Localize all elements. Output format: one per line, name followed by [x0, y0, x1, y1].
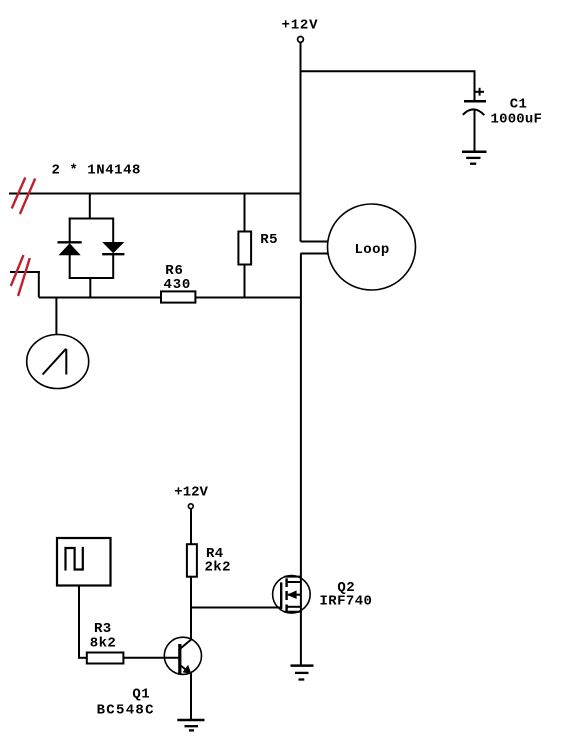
Q2 body arrow	[288, 594, 301, 596]
svg-text:BC548C: BC548C	[97, 702, 155, 718]
diode box bottom	[69, 277, 113, 279]
wire: lower-left input stub	[10, 271, 40, 273]
wire: junction to Q2 gate	[191, 607, 282, 609]
svg-text:+12V: +12V	[282, 17, 319, 33]
wire: R5 top lead	[244, 193, 246, 232]
input break marks (bottom, red)	[11, 255, 24, 286]
diode D-left leads	[69, 218, 71, 243]
wire: lower rail left of R6	[39, 297, 161, 299]
wire: horizontal branch to C1	[300, 70, 475, 72]
resistor R5	[238, 232, 251, 265]
square wave glyph	[66, 547, 83, 571]
resistor R6	[161, 291, 195, 302]
svg-text:8k2: 8k2	[90, 635, 116, 651]
wire: stub corner down	[38, 271, 40, 298]
svg-text:1000uF: 1000uF	[491, 112, 543, 128]
signal generator box	[57, 538, 111, 586]
ground (Q1)	[177, 719, 204, 722]
power terminal circle (top +12V)	[298, 37, 304, 43]
wire: main vertical below loop stub down to Q2	[300, 254, 302, 667]
loop antenna circle	[328, 204, 416, 290]
wire: C1 to ground	[474, 109, 476, 152]
svg-text:Loop: Loop	[355, 242, 390, 258]
Q2 gate bar	[280, 582, 282, 609]
ground (Q2)	[291, 664, 314, 667]
wire: corner to R3	[78, 657, 87, 659]
wire: down to C1 plus plate	[474, 70, 476, 101]
C1 plus sign	[476, 91, 485, 93]
transistor Q1 circle	[164, 637, 201, 674]
wire: R4 bottom to gate junction	[190, 577, 192, 609]
diode D-right leads	[112, 218, 114, 244]
Q1 collector diagonal	[180, 640, 191, 650]
wire: lower rail down to meter	[55, 298, 57, 335]
meter circle	[27, 335, 89, 389]
wire: Q1 emitter to ground	[190, 672, 192, 720]
wire: loop top stub	[301, 241, 328, 243]
wire: loop bottom stub	[301, 253, 328, 255]
svg-text:Q1: Q1	[132, 686, 150, 702]
Q2 drain stubs	[285, 576, 302, 578]
svg-text:+12V: +12V	[174, 484, 208, 500]
wire: generator down	[78, 586, 80, 659]
wire: lower rail right of R6	[195, 297, 301, 299]
mosfet Q2 circle	[273, 576, 311, 614]
diode box top	[69, 218, 113, 220]
power terminal circle (bottom +12V)	[188, 504, 193, 509]
resistor R3	[87, 653, 124, 664]
svg-text:C1: C1	[510, 97, 528, 113]
meter needle	[43, 349, 66, 375]
svg-text:2k2: 2k2	[205, 560, 231, 576]
diode D-right (cathode bar down)	[102, 242, 124, 253]
capacitor C1 top plate	[464, 100, 486, 103]
wire: top input rail	[9, 193, 301, 195]
wire: R5 bottom lead	[244, 265, 246, 299]
wire: +12V terminal down to loop top stub	[300, 43, 302, 242]
wire: junction down to Q1 collector	[190, 608, 192, 640]
input break marks (top, red)	[12, 178, 26, 209]
diode D-left (cathode bar up)	[58, 241, 82, 243]
wire: diode box bottom to lower rail	[89, 278, 91, 298]
svg-text:R5: R5	[260, 232, 278, 248]
svg-text:2 * 1N4148: 2 * 1N4148	[52, 162, 142, 178]
capacitor C1 curved plate	[463, 109, 485, 115]
wire: R3 to Q1 base	[123, 657, 178, 659]
Q2 channel dashes	[285, 578, 287, 587]
Q1 emitter diagonal with arrow	[181, 666, 192, 674]
svg-text:IRF740: IRF740	[320, 594, 373, 610]
Q1 base bar	[178, 644, 181, 674]
resistor R4	[187, 544, 197, 577]
wire: rail down to diode box	[89, 194, 91, 219]
wire: +12V terminal to R4	[190, 509, 192, 544]
Q2 source stubs	[287, 606, 302, 608]
ground (C1)	[462, 151, 487, 154]
